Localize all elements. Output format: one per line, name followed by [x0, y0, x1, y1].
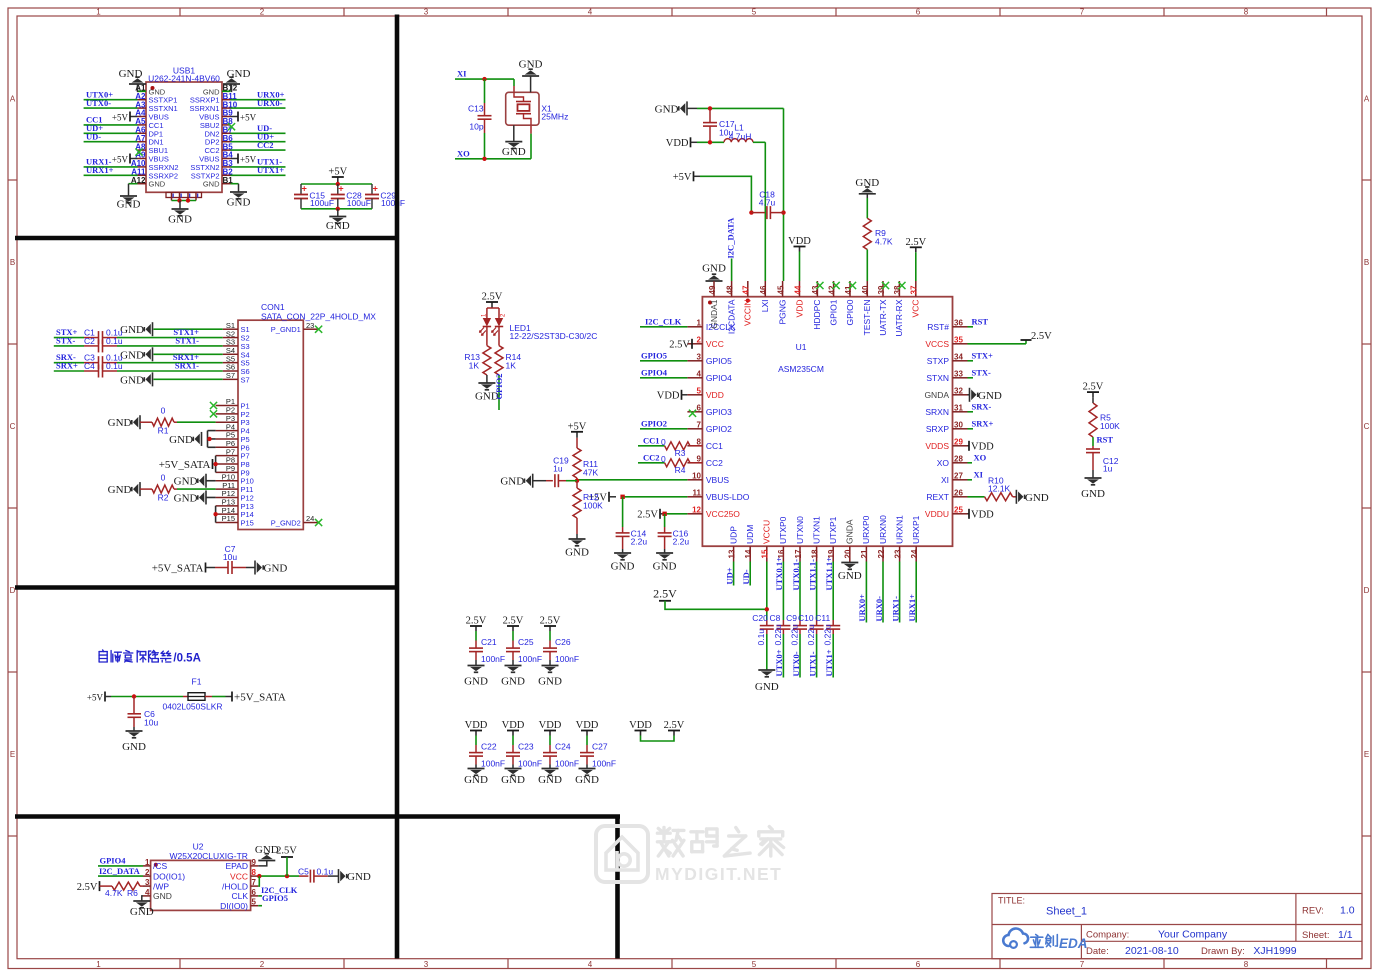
wire pin45 vertical	[783, 108, 785, 281]
USB1 pin B12	[222, 90, 231, 92]
svg-text:5: 5	[252, 898, 257, 907]
U1 pin 47 VCCIN	[747, 281, 749, 297]
wire VCC node	[258, 875, 299, 877]
svg-text:P15: P15	[241, 519, 254, 528]
wire SRX-	[968, 411, 974, 413]
svg-text:C5: C5	[298, 866, 309, 876]
U1 pin 29 VDDS	[953, 445, 968, 447]
svg-text:2: 2	[145, 868, 150, 877]
svg-text:VBUS-LDO: VBUS-LDO	[706, 492, 750, 502]
title block EasyEDA logo	[1003, 929, 1028, 948]
svg-text:E: E	[1364, 750, 1369, 759]
svg-text:VDD: VDD	[971, 510, 994, 521]
power flag 2.5V at pin37	[915, 247, 917, 252]
svg-text:LXI: LXI	[760, 300, 770, 313]
svg-text:+5V: +5V	[328, 167, 347, 178]
resistor R1 zigzag	[152, 418, 174, 426]
svg-text:REV:: REV:	[1302, 906, 1324, 917]
svg-text:GND: GND	[227, 197, 251, 209]
svg-text:UTXP0: UTXP0	[778, 516, 788, 544]
svg-text:2.5V: 2.5V	[653, 586, 677, 600]
ground GND at C20	[758, 670, 775, 677]
svg-text:B: B	[10, 258, 15, 267]
wire net UTX0-	[84, 107, 138, 109]
svg-text:23: 23	[306, 321, 314, 330]
wire S7 to ground	[154, 378, 223, 380]
ground GND at S7	[144, 372, 152, 386]
svg-text:URXN0: URXN0	[878, 515, 888, 544]
svg-text:0: 0	[161, 406, 166, 416]
svg-text:2: 2	[260, 960, 265, 969]
svg-text:UTX0-: UTX0-	[86, 98, 111, 108]
wire net URX0+	[231, 99, 286, 101]
svg-text:100nF: 100nF	[518, 654, 542, 664]
svg-text:7: 7	[1080, 8, 1085, 17]
wire R11 to VBUS node	[576, 478, 578, 481]
wire C2 to S3	[117, 345, 223, 347]
svg-text:2.5V: 2.5V	[482, 292, 503, 303]
svg-text:30: 30	[954, 420, 963, 429]
svg-text:47: 47	[742, 285, 751, 294]
wire URX1- pin23	[899, 562, 901, 623]
svg-text:RST: RST	[972, 316, 989, 326]
svg-text:DI(IO0): DI(IO0)	[220, 901, 248, 911]
svg-text:URXP0: URXP0	[861, 515, 871, 544]
junction	[765, 607, 769, 611]
U1 pin 20 GNDA	[849, 546, 851, 561]
svg-text:100nF: 100nF	[481, 759, 505, 769]
svg-text:2.5V: 2.5V	[276, 845, 297, 856]
svg-text:7: 7	[697, 420, 702, 429]
svg-text:8: 8	[252, 868, 257, 877]
wire to fuse	[111, 696, 183, 698]
svg-text:10p: 10p	[469, 122, 483, 132]
svg-text:P15: P15	[222, 514, 235, 523]
svg-text:3: 3	[145, 878, 150, 887]
svg-text:GND: GND	[519, 59, 543, 71]
svg-text:0.22u: 0.22u	[789, 624, 799, 646]
U1 pin 37 VCC	[915, 281, 917, 297]
wire R13 to ground	[486, 375, 488, 383]
section divider line vertical	[395, 15, 400, 959]
ground GND at C23	[505, 769, 522, 776]
power flag 2.5V at C25	[512, 626, 514, 631]
svg-text:36: 36	[954, 318, 963, 327]
wire URX1+ pin24	[915, 562, 917, 623]
capacitor C4 plates	[99, 365, 103, 378]
resistor R4 zigzag	[665, 459, 690, 467]
wire I2C_DATA	[98, 875, 143, 877]
ground GND at P10	[198, 474, 206, 488]
wire shield to ground	[172, 200, 197, 202]
wire net STX+	[54, 337, 84, 339]
USB1 pin A2	[138, 99, 147, 101]
U1 pin 33 STXN	[953, 377, 968, 379]
capacitor C21 100nF	[475, 631, 477, 641]
ground GND at R9	[859, 187, 876, 194]
wire B9 to +5V	[231, 116, 239, 118]
ground GND at C27	[579, 769, 596, 776]
svg-text:GND: GND	[655, 103, 679, 115]
svg-text:17: 17	[794, 549, 803, 558]
svg-text:GND: GND	[174, 476, 198, 488]
svg-text:GND: GND	[464, 676, 488, 688]
capacitor C15 100uF	[300, 184, 302, 195]
svg-text:SRX+: SRX+	[972, 418, 994, 428]
capacitor C7 plates	[228, 561, 232, 574]
USB1 pin B2	[222, 174, 231, 176]
svg-text:100nF: 100nF	[555, 759, 579, 769]
power flag 2.5V tie	[673, 731, 675, 736]
svg-text:49: 49	[708, 285, 717, 294]
U2 pin 3	[143, 885, 151, 887]
svg-text:GPIO4: GPIO4	[641, 367, 668, 377]
wire 2.5V to pin37	[915, 252, 917, 281]
svg-text:U1: U1	[796, 342, 807, 352]
CON1 pin P6	[216, 446, 238, 448]
wire STX+	[968, 360, 974, 362]
junction	[336, 207, 340, 211]
wire GPIO2	[640, 428, 687, 430]
capacitor C19 1u	[533, 480, 546, 482]
resistor R14 zigzag	[495, 346, 503, 375]
svg-text:GPIO5: GPIO5	[641, 350, 667, 360]
wire A12 to ground	[129, 183, 138, 185]
ground GND at R13	[478, 383, 495, 390]
resistor R14 1K	[498, 327, 500, 346]
svg-text:SRX-: SRX-	[972, 401, 992, 411]
svg-text:GND: GND	[838, 570, 862, 582]
U1 pin 8 CC1	[687, 445, 702, 447]
power flag 2.5V at LED1	[491, 302, 493, 308]
svg-text:VDDS: VDDS	[925, 441, 949, 451]
svg-text:C2: C2	[84, 336, 95, 346]
title block	[992, 894, 1362, 959]
svg-text:GND: GND	[119, 68, 143, 80]
ground GND at C14	[614, 553, 631, 560]
ground GND at C6	[126, 731, 143, 738]
power flag VDD at C23	[512, 731, 514, 736]
capacitor C18 4.7u	[751, 212, 765, 214]
capacitor C1 0.1u	[84, 337, 99, 339]
svg-text:3: 3	[424, 8, 429, 17]
svg-text:S7: S7	[241, 375, 250, 384]
CON1 pin S4	[223, 353, 238, 355]
power flag +5V at F1	[104, 692, 106, 702]
wire bracket P13-P15	[215, 506, 217, 523]
svg-text:VDD: VDD	[629, 720, 652, 731]
svg-text:7: 7	[252, 878, 257, 887]
CON1 pin P12	[216, 496, 238, 498]
resistor R1 0	[140, 421, 152, 423]
no-connect X at GPIO3	[689, 410, 696, 417]
no-connect X at P_GND2	[315, 519, 322, 526]
svg-text:CC2: CC2	[643, 452, 660, 462]
U1 pin 6 GPIO3	[687, 411, 702, 413]
wire XO	[968, 462, 973, 464]
U1 pin 46 LXI	[764, 281, 766, 297]
ground GND at U2 pin4	[133, 901, 150, 908]
svg-text:HDDPC: HDDPC	[812, 300, 822, 330]
wire GND to R9	[866, 194, 868, 198]
ground GND below X1	[505, 142, 522, 149]
ground GND at C24	[542, 769, 559, 776]
power flag +5V_SATA at F1	[226, 696, 232, 698]
svg-text:Company:: Company:	[1086, 930, 1129, 941]
wire net SRX+	[54, 370, 84, 372]
svg-text:+: +	[338, 184, 343, 194]
svg-text:D: D	[10, 586, 16, 595]
svg-text:UTX1+: UTX1+	[824, 649, 834, 676]
svg-text:2.5V: 2.5V	[503, 616, 524, 627]
no-connect X top pin	[882, 282, 889, 289]
junction	[749, 210, 753, 214]
capacitor C25 100nF	[512, 631, 514, 641]
wire R9 to pin40	[866, 250, 868, 282]
svg-text:+5V: +5V	[87, 692, 104, 702]
svg-text:5: 5	[752, 8, 757, 17]
svg-text:GPIO0: GPIO0	[845, 299, 855, 325]
wire A9 to +5V	[130, 158, 138, 160]
CON1 pin P13	[216, 505, 238, 507]
power flag +5V at USB1 B4	[237, 154, 239, 164]
svg-text:8: 8	[1244, 960, 1249, 969]
resistor R11 zigzag	[573, 448, 581, 478]
resistor R13 1K	[486, 327, 488, 346]
USB1 pin B4	[222, 158, 231, 160]
wire CC2	[638, 462, 665, 464]
svg-text:/WP: /WP	[153, 881, 169, 891]
watermark logo house icon	[596, 826, 648, 882]
wire net URX1+	[84, 174, 138, 176]
wire net UD+	[84, 132, 138, 134]
svg-text:GND: GND	[130, 906, 154, 918]
svg-text:GND: GND	[174, 492, 198, 504]
svg-text:1/1: 1/1	[1338, 929, 1353, 941]
resistor R12 100K	[576, 481, 578, 488]
svg-text:XJH1999: XJH1999	[1253, 945, 1296, 957]
svg-text:VCC: VCC	[230, 871, 248, 881]
svg-text:6: 6	[252, 888, 257, 897]
svg-text:XO: XO	[457, 148, 470, 158]
ground GND at S4	[144, 347, 152, 361]
svg-text:C20: C20	[752, 613, 768, 623]
svg-text:UTX1-: UTX1-	[807, 651, 817, 676]
svg-text:C11: C11	[815, 613, 830, 623]
svg-text:/HOLD: /HOLD	[222, 881, 248, 891]
svg-text:GND: GND	[120, 374, 144, 386]
svg-text:12-22/S2ST3D-C30/2C: 12-22/S2ST3D-C30/2C	[510, 331, 598, 341]
USB1 pin A3	[138, 107, 147, 109]
svg-text:27: 27	[954, 471, 963, 480]
no-connect X top pin	[833, 282, 840, 289]
svg-text:46: 46	[759, 285, 768, 294]
svg-text:GND: GND	[120, 324, 144, 336]
CON1 pin P11	[216, 488, 238, 490]
label R3	[690, 445, 702, 447]
svg-text:0402L050SLKR: 0402L050SLKR	[162, 702, 222, 712]
ground GND at R12	[569, 539, 586, 546]
capacitor C10 0.22u	[816, 562, 818, 621]
power flag 2.5V at C20	[659, 600, 671, 602]
inductor L1 4.7uH	[724, 139, 753, 143]
svg-text:URXP1: URXP1	[911, 515, 921, 544]
svg-text:GPIO3: GPIO3	[706, 407, 732, 417]
svg-text:Sheet:: Sheet:	[1302, 930, 1329, 941]
svg-text:23: 23	[893, 549, 902, 558]
watermark text Chinese	[657, 828, 684, 857]
wire net UD-	[231, 132, 286, 134]
CON1 pin P1	[216, 405, 238, 407]
svg-text:C22: C22	[481, 742, 497, 752]
svg-text:100uF: 100uF	[347, 198, 371, 208]
svg-text:0.22u: 0.22u	[823, 624, 833, 646]
U1 pin 2 VCC	[687, 343, 702, 345]
ground GND at C12	[1085, 478, 1102, 485]
wire net UD-	[84, 141, 138, 143]
svg-text:GPIO2: GPIO2	[706, 424, 732, 434]
resistor R11 47K	[576, 438, 578, 448]
no-connect X top pin	[898, 282, 905, 289]
svg-text:C21: C21	[481, 637, 497, 647]
svg-text:URX1+: URX1+	[86, 165, 114, 175]
resistor R2 zigzag	[152, 485, 174, 493]
svg-text:F1: F1	[192, 677, 202, 687]
section divider line horizontal 3	[15, 814, 620, 819]
net label GPIO5 at U2	[258, 905, 262, 907]
svg-text:21: 21	[860, 549, 869, 558]
svg-text:GND: GND	[611, 561, 635, 573]
ground GND at U2 EPAD	[258, 854, 275, 861]
svg-text:28: 28	[954, 454, 963, 463]
CON1 pin S3	[223, 345, 238, 347]
resistor R6 4.7K	[99, 881, 101, 891]
power flag +5V at R11	[576, 432, 578, 438]
power flag 2.5V at pin12	[659, 509, 661, 519]
svg-text:UATR-RX: UATR-RX	[894, 299, 904, 336]
svg-text:+5V: +5V	[240, 112, 257, 122]
svg-text:VDD: VDD	[576, 720, 599, 731]
capacitor C24 100nF	[549, 736, 551, 746]
svg-text:8: 8	[1244, 8, 1249, 17]
crystal X1 25MHz	[513, 86, 515, 92]
U1 pin 48 I2CDATA	[731, 281, 733, 297]
U1 pin 17 UTXN0	[799, 546, 801, 561]
wire SRX+	[968, 428, 974, 430]
svg-text:VCC: VCC	[911, 300, 921, 318]
ground GND at R10	[1016, 490, 1024, 504]
U1 pin 24 URXP1	[915, 546, 917, 561]
svg-text:A: A	[10, 95, 16, 104]
svg-text:100K: 100K	[583, 501, 603, 511]
junction	[575, 479, 579, 483]
U1 pin 49 GNDA1	[713, 281, 715, 297]
svg-text:STXP: STXP	[927, 356, 950, 366]
power flag 2.5V at U2	[281, 856, 293, 858]
svg-text:UTX0-: UTX0-	[791, 651, 801, 676]
wire +5V to F1	[105, 696, 111, 698]
resistor R13 zigzag	[483, 346, 491, 375]
svg-text:4.7uH: 4.7uH	[729, 131, 752, 141]
svg-text:12.1K: 12.1K	[988, 484, 1011, 494]
svg-text:STX-: STX-	[56, 336, 76, 346]
USB1 pin B5	[222, 149, 231, 151]
U1 pin 35 VCCS	[953, 343, 968, 345]
svg-text:STX1-: STX1-	[175, 336, 199, 346]
resistor R2 0	[140, 488, 152, 490]
resistor R6 zigzag	[112, 882, 140, 890]
ground GND at P12	[198, 490, 206, 504]
CON1 pin P5	[216, 438, 238, 440]
power flag VDD at L1	[690, 137, 692, 147]
wire P10	[206, 480, 216, 482]
svg-text:9: 9	[252, 858, 257, 867]
capacitor C27 100nF	[586, 736, 588, 746]
svg-text:Sheet_1: Sheet_1	[1046, 906, 1087, 918]
CON1 pin P14	[216, 513, 238, 515]
svg-text:32: 32	[954, 386, 963, 395]
svg-text:15: 15	[761, 549, 770, 558]
U1 pin 42 GPIO1	[833, 281, 835, 297]
svg-text:GND: GND	[502, 146, 526, 158]
USB1 pin B3	[222, 166, 231, 168]
U1 pin 13 UDP	[733, 546, 735, 561]
svg-text:0.1u: 0.1u	[317, 866, 334, 876]
svg-text:13: 13	[727, 549, 736, 558]
svg-text:4: 4	[697, 369, 702, 378]
svg-text:I2C_DATA: I2C_DATA	[99, 866, 141, 876]
svg-text:GND: GND	[227, 68, 251, 80]
svg-text:GPIO5: GPIO5	[262, 893, 288, 903]
svg-text:UTX0+: UTX0+	[774, 649, 784, 676]
svg-text:GND: GND	[153, 891, 172, 901]
svg-text:29: 29	[954, 437, 963, 446]
wire B4 to +5V	[231, 158, 239, 160]
svg-text:3: 3	[424, 960, 429, 969]
svg-text:1K: 1K	[506, 361, 517, 371]
wire net URX0-	[231, 107, 286, 109]
svg-text:25MHz: 25MHz	[541, 111, 568, 121]
U2 pin 2	[143, 875, 151, 877]
no-connect X at P2	[210, 410, 217, 417]
svg-text:4.7K: 4.7K	[105, 888, 123, 898]
ground GND at pin49	[706, 274, 723, 281]
ground GND at C21	[468, 666, 485, 673]
svg-text:RST#: RST#	[927, 322, 949, 332]
ground GND at USB1 B1	[230, 192, 247, 199]
wire REXT to R10	[968, 496, 985, 498]
wire ground rail	[301, 208, 372, 210]
power flag +5V at USB1 A4	[129, 112, 131, 122]
U1 pin 41 GPIO0	[849, 281, 851, 297]
svg-text:GND: GND	[702, 263, 726, 275]
junction	[482, 157, 486, 161]
svg-text:UTX1+: UTX1+	[257, 165, 284, 175]
CON1 pin P8	[216, 463, 238, 465]
svg-text:37: 37	[910, 285, 919, 294]
svg-text:C25: C25	[518, 637, 534, 647]
svg-text:0.22u: 0.22u	[773, 624, 783, 646]
svg-text:14: 14	[744, 549, 753, 558]
LED LED1 dual	[487, 307, 499, 309]
power flag VDD at pin5	[681, 390, 683, 400]
U1 pin 15 VCCU	[766, 546, 768, 561]
capacitor C3 plates	[99, 356, 103, 369]
wire UD- pin14	[749, 562, 751, 586]
svg-text:4.7u: 4.7u	[759, 198, 776, 208]
junction	[781, 210, 785, 214]
U1 pin 45 PGNG	[782, 281, 784, 297]
